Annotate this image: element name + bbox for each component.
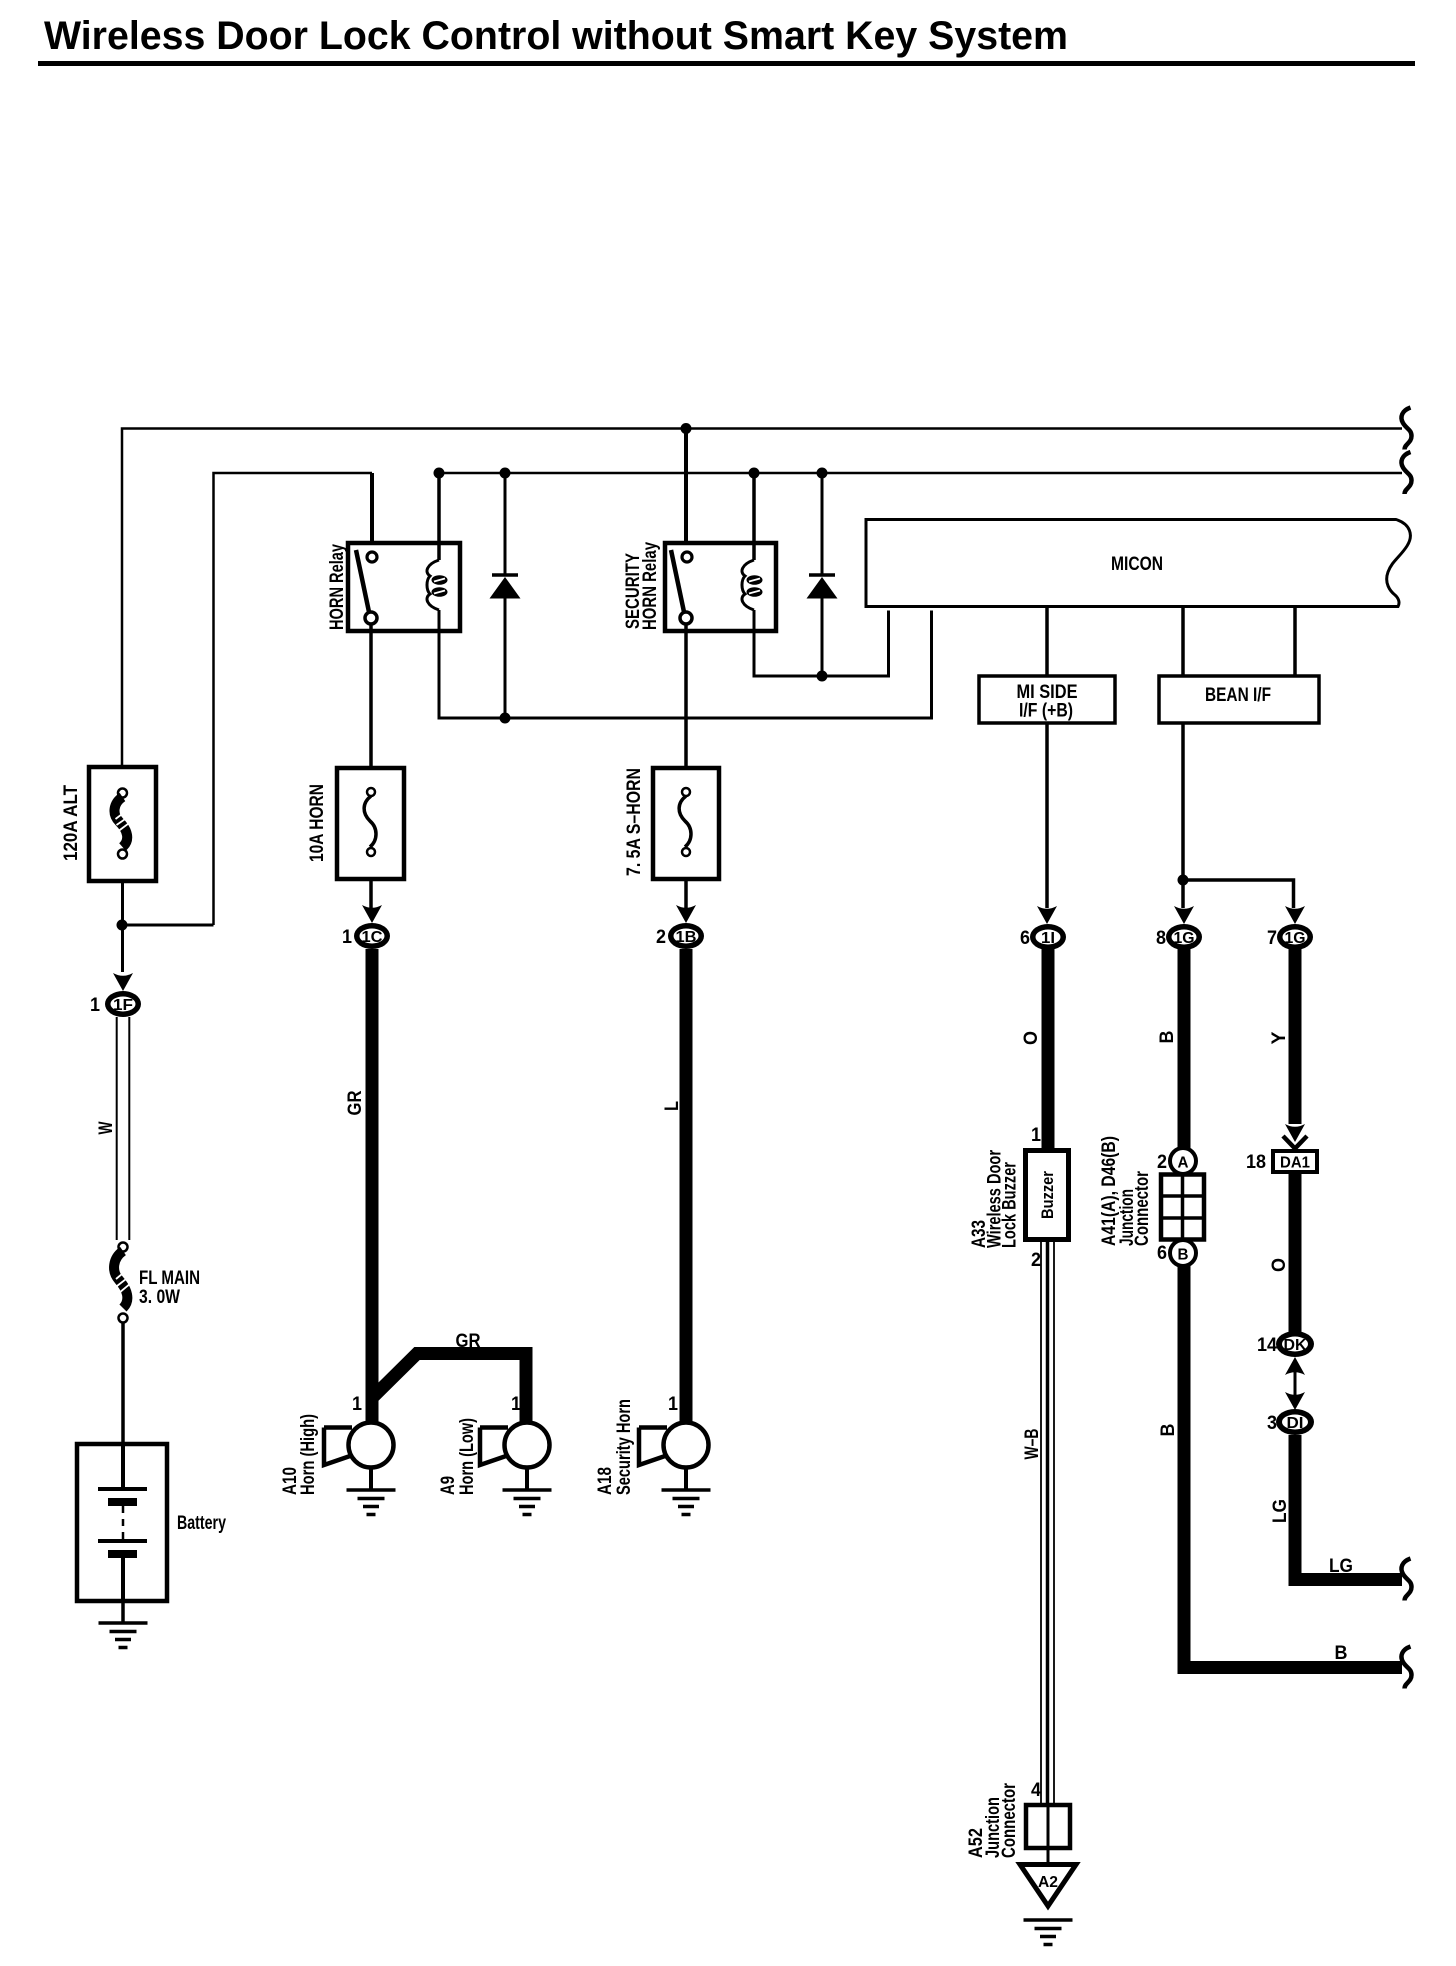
label MI SIDE I/F (+B) [1017,682,1078,722]
svg-text:1I: 1I [1041,930,1055,947]
svg-text:B: B [1157,1031,1178,1044]
svg-text:7: 7 [1267,928,1277,949]
wire GR main (1C to horn A10) [366,949,379,1424]
wire A52 to ground triangle [1047,1848,1050,1864]
svg-text:LG: LG [1270,1499,1291,1523]
junction connector circle B [1170,1240,1196,1266]
svg-text:W: W [96,1121,117,1134]
label FL MAIN 3.0W [139,1268,200,1308]
wire horn A10 to ground [369,1467,373,1490]
ECU box MICON [866,520,1410,607]
wire DK to DI (thin) [1294,1372,1297,1399]
wire break symbol bus 1 right end [1401,408,1411,450]
svg-text:18: 18 [1246,1152,1266,1173]
label A18 Security Horn [595,1399,635,1495]
junction connector A41/D46 grid [1161,1175,1204,1240]
wire: +B bus 1 (top horizontal, battery to off-page right) [122,429,1402,767]
wire: MI SIDE I/F to connector 1I [1045,723,1049,908]
ground horn A10 [347,1490,396,1515]
svg-text:4: 4 [1031,1780,1041,1801]
svg-text:1: 1 [1031,1125,1041,1146]
wire: diode D2 bottom to coil net [821,598,824,676]
svg-text:Y: Y [1269,1031,1290,1044]
svg-text:8: 8 [1156,928,1166,949]
wire break symbol LG right end [1401,1559,1411,1601]
svg-text:10A HORN: 10A HORN [307,784,328,862]
arrow into connector 1F [113,973,133,991]
wire: branch to connector 1G pin 7 [1183,880,1294,908]
connector oval 1B [668,923,704,949]
arrow into connector 1G pin 7 [1285,906,1305,924]
svg-text:FL MAIN: FL MAIN [139,1268,200,1289]
ground horn A9 [503,1490,552,1515]
connector oval 1F [105,991,141,1017]
junction dot diode D2 bottom [817,671,828,682]
svg-text:14: 14 [1257,1335,1277,1356]
svg-text:1: 1 [342,927,352,948]
wire: MICON to BEAN I/F pin b [1293,608,1297,677]
block BEAN I/F [1159,676,1319,723]
wire W (white) hollow from 1F to FL MAIN [117,1017,130,1240]
wire: SECURITY relay coil down, across to MICON pin [754,610,889,676]
wire: MICON to MI SIDE I/F [1045,608,1049,677]
svg-text:DA1: DA1 [1280,1155,1310,1172]
svg-text:3. 0W: 3. 0W [139,1287,180,1308]
wire O (DA1 to DK) [1289,1172,1302,1332]
svg-text:6: 6 [1157,1243,1167,1264]
wire: battery to ground [121,1601,125,1623]
svg-text:B: B [1158,1424,1179,1437]
svg-text:W–B: W–B [1022,1429,1043,1460]
junction dot bus2 at SECURITY relay coil [749,468,760,479]
wire: FL MAIN to battery [121,1322,125,1444]
wire: bus2 to SECURITY HORN relay coil [752,473,756,560]
svg-text:B: B [1335,1643,1348,1664]
arrow into connector 1C [362,905,382,923]
svg-text:A18: A18 [595,1467,616,1495]
svg-text:Horn (High): Horn (High) [298,1414,319,1495]
wire: BEAN I/F to connector 1G pin 8 [1181,723,1185,908]
horn A9 Horn (Low) [480,1423,550,1468]
junction dot BEAN branch [1178,875,1189,886]
junction dot diode D1 bottom [500,713,511,724]
fuse 120A ALT [89,767,156,881]
wire: diode D1 bottom to coil net [504,598,507,718]
wire B (1G pin 8 down through junction connector, to off-page right) [1184,949,1402,1668]
svg-text:A: A [1178,1155,1189,1172]
connector DA1 box [1273,1151,1317,1172]
label A33 Wireless Door Lock Buzzer [969,1150,1021,1248]
wire horn A18 to ground [684,1467,688,1490]
relay SECURITY HORN Relay [665,543,776,631]
wire break symbol B right end [1401,1647,1411,1689]
svg-text:6: 6 [1020,928,1030,949]
junction connector circle A [1170,1148,1196,1174]
connector oval DI [1276,1409,1314,1435]
svg-text:A2: A2 [1038,1874,1058,1891]
wire: fuse to connector 1F [121,883,124,972]
svg-text:7. 5A S–HORN: 7. 5A S–HORN [624,768,645,876]
svg-text:LG: LG [1329,1556,1353,1577]
wire: +B bus 2 left segment (to HORN relay switch) [214,473,373,925]
wire: 7.5A fuse to connector 1B [684,881,688,910]
wire LG (DI to off-page right) [1295,1435,1402,1580]
wire W-B (buzzer to A52): hollow with stripe [1041,1242,1054,1805]
svg-text:1B: 1B [676,929,697,946]
label A10 Horn (High) [280,1414,319,1495]
svg-text:1F: 1F [113,997,133,1014]
svg-text:O: O [1269,1258,1290,1272]
svg-text:A9: A9 [438,1476,459,1495]
title underline [38,61,1415,66]
svg-text:1: 1 [90,995,100,1016]
ground point A2 triangle [1020,1865,1076,1907]
arrow into connector 1G pin 8 [1174,906,1194,924]
svg-text:Connector: Connector [999,1783,1020,1858]
junction dot bus1 at SECURITY HORN relay [681,423,692,434]
svg-text:Security Horn: Security Horn [614,1399,635,1495]
relay HORN Relay [348,543,460,631]
wire: MICON to BEAN I/F pin a [1181,608,1185,677]
svg-text:1G: 1G [1174,930,1195,947]
svg-text:2: 2 [1157,1152,1167,1173]
svg-text:Buzzer: Buzzer [1038,1171,1057,1219]
junction dot bus2 at HORN relay coil [434,468,445,479]
svg-text:BEAN I/F: BEAN I/F [1205,685,1271,706]
junction dot bus2 at diode D1 [500,468,511,479]
svg-text:3: 3 [1267,1413,1277,1434]
connector oval 1I [1030,924,1066,950]
label A52 Junction Connector [966,1783,1020,1858]
connector oval DK [1276,1331,1314,1357]
wire: bus2 to HORN relay switch [370,473,374,543]
svg-text:HORN Relay: HORN Relay [640,542,661,630]
svg-text:Lock Buzzer: Lock Buzzer [1000,1162,1021,1248]
connector oval 1G (pin 7) [1277,924,1313,950]
diode D1 [490,575,521,599]
horn A18 Security Horn [639,1423,709,1468]
diode D2 (security) wire top [821,473,824,576]
wire: bus2 to HORN relay coil [437,473,441,560]
svg-text:MICON: MICON [1111,554,1163,575]
horn A10 Horn (High) [324,1423,394,1468]
arrow into DA1 [1285,1124,1305,1142]
diode D1 (HORN relay suppression) wire top [504,473,507,576]
svg-text:Battery: Battery [177,1513,226,1534]
svg-text:GR: GR [456,1331,481,1352]
svg-text:Horn (Low): Horn (Low) [457,1418,478,1495]
svg-text:DK: DK [1284,1337,1307,1354]
svg-text:Connector: Connector [1132,1171,1153,1246]
label SECURITY HORN Relay [623,542,661,630]
wire: SECURITY relay switch to 7.5A fuse [684,624,688,767]
connector oval 1C [354,923,390,949]
block MI SIDE I/F (+B) [979,676,1115,723]
svg-text:1: 1 [511,1394,521,1415]
ground horn A18 [662,1490,711,1515]
chevron into DA1 [1283,1136,1307,1149]
svg-text:2: 2 [656,927,666,948]
arrow up out of DK [1285,1357,1305,1375]
fuse 7.5A S-HORN [653,768,719,879]
svg-text:I/F (+B): I/F (+B) [1019,701,1073,722]
wire: jumper from ALT fuse output to bus 2 [122,924,214,927]
svg-text:Wireless Door Lock Control wit: Wireless Door Lock Control without Smart… [44,14,1068,58]
wire: +B bus 2 right segment (coils, diodes, off-page right) [439,472,1402,475]
svg-text:B: B [1178,1247,1189,1264]
arrow into DI [1285,1392,1305,1410]
wire: 10A HORN fuse to connector 1C [369,881,373,910]
svg-text:1G: 1G [1285,930,1306,947]
svg-text:120A ALT: 120A ALT [61,785,82,861]
junction connector A52 [1026,1805,1070,1848]
wire break symbol bus 2 right end [1401,452,1411,494]
fuse 10A HORN [337,768,404,879]
wire O (1I to buzzer) [1042,949,1055,1150]
junction dot bus2 at diode D2 [817,468,828,479]
wire L (1B to security horn A18) [680,949,693,1424]
svg-text:HORN Relay: HORN Relay [327,544,348,630]
wire: HORN relay coil down, across to MICON pin [439,610,932,718]
diode D2 [807,575,838,599]
svg-text:1: 1 [352,1394,362,1415]
svg-text:GR: GR [345,1090,366,1115]
arrow into connector 1I [1037,906,1057,924]
junction dot at 120A ALT output [117,920,128,931]
ground battery [99,1623,148,1648]
svg-text:1C: 1C [362,929,383,946]
battery [77,1444,167,1601]
wire: bus1 to SECURITY HORN relay switch [684,429,688,544]
label A41(A), D46(B) Junction Connector [1099,1136,1153,1246]
buzzer A33 box [1026,1151,1069,1240]
ground A2 [1024,1920,1073,1945]
svg-text:2: 2 [1031,1250,1041,1271]
wire horn A9 to ground [525,1467,529,1490]
wire: HORN relay switch to 10A HORN fuse [369,624,373,767]
svg-text:DI: DI [1287,1415,1304,1432]
label A9 Horn (Low) [438,1418,478,1495]
fusible link FL MAIN 3.0W [114,1243,131,1323]
wire Y (1G pin 7 to DA1) [1289,949,1302,1124]
svg-text:1: 1 [668,1394,678,1415]
svg-text:O: O [1021,1031,1042,1045]
arrow into connector 1B [676,905,696,923]
wire GR branch (diagonal + horizontal to horn A9) [372,1354,526,1425]
connector oval 1G (pin 8) [1166,924,1202,950]
svg-text:L: L [662,1101,683,1111]
